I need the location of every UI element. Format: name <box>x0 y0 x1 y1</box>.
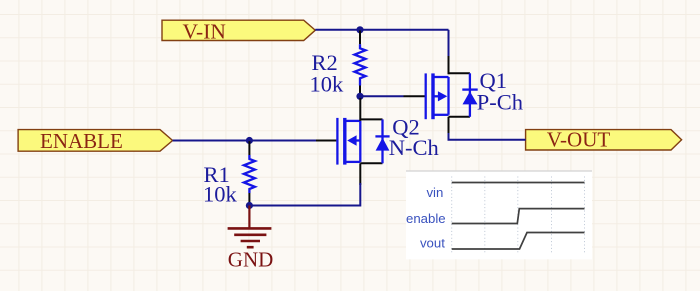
resistor R1 <box>244 141 255 205</box>
node junction R2 / Q1 gate / Q2 drain <box>356 93 363 100</box>
transistor Q1 (P-channel MOSFET) <box>426 73 478 119</box>
svg-text:vin: vin <box>426 185 443 200</box>
svg-text:P-Ch: P-Ch <box>477 90 523 115</box>
wire Q1 drain to V-OUT <box>449 133 526 140</box>
resistor R2 <box>355 31 366 97</box>
body diode of Q2 <box>381 119 383 163</box>
svg-text:10k: 10k <box>310 72 345 97</box>
node junction V-IN / R2 <box>356 26 363 33</box>
body diode of Q1 <box>469 73 471 117</box>
svg-text:V-OUT: V-OUT <box>547 128 611 152</box>
ground GND <box>228 206 274 272</box>
pin Q1 drain <box>448 117 450 135</box>
node junction R1 / GND <box>246 202 253 209</box>
svg-text:10k: 10k <box>203 181 238 206</box>
svg-text:N-Ch: N-Ch <box>389 135 439 160</box>
waveform grid dotted lines <box>452 177 585 254</box>
node junction ENABLE / R1 <box>246 137 253 144</box>
waveform vout trace <box>452 233 585 250</box>
wire V-IN top rail <box>315 29 448 31</box>
wire Q2 source to R1 bottom <box>249 183 360 206</box>
port V-OUT <box>526 128 682 152</box>
svg-text:vout: vout <box>420 235 445 250</box>
svg-text:GND: GND <box>228 248 273 272</box>
pin Q2 gate <box>316 140 336 142</box>
wire top rail down to Q1 source <box>448 30 450 58</box>
waveform enable trace <box>452 209 585 224</box>
pin Q1 gate <box>404 95 426 97</box>
pin Q1 source <box>448 56 450 74</box>
port ENABLE <box>18 129 173 153</box>
waveform inset box <box>406 171 592 259</box>
pin Q2 drain <box>359 98 361 121</box>
transistor Q2 (N-channel MOSFET) <box>337 118 389 165</box>
port V-IN <box>162 19 315 43</box>
svg-text:ENABLE: ENABLE <box>40 129 123 153</box>
waveform vin trace <box>452 182 585 184</box>
wire R2 to Q1 gate <box>360 95 404 97</box>
svg-text:V-IN: V-IN <box>183 19 227 43</box>
svg-text:enable: enable <box>406 211 446 226</box>
pin Q2 source <box>359 163 361 185</box>
wire ENABLE to Q2 gate <box>173 140 317 142</box>
